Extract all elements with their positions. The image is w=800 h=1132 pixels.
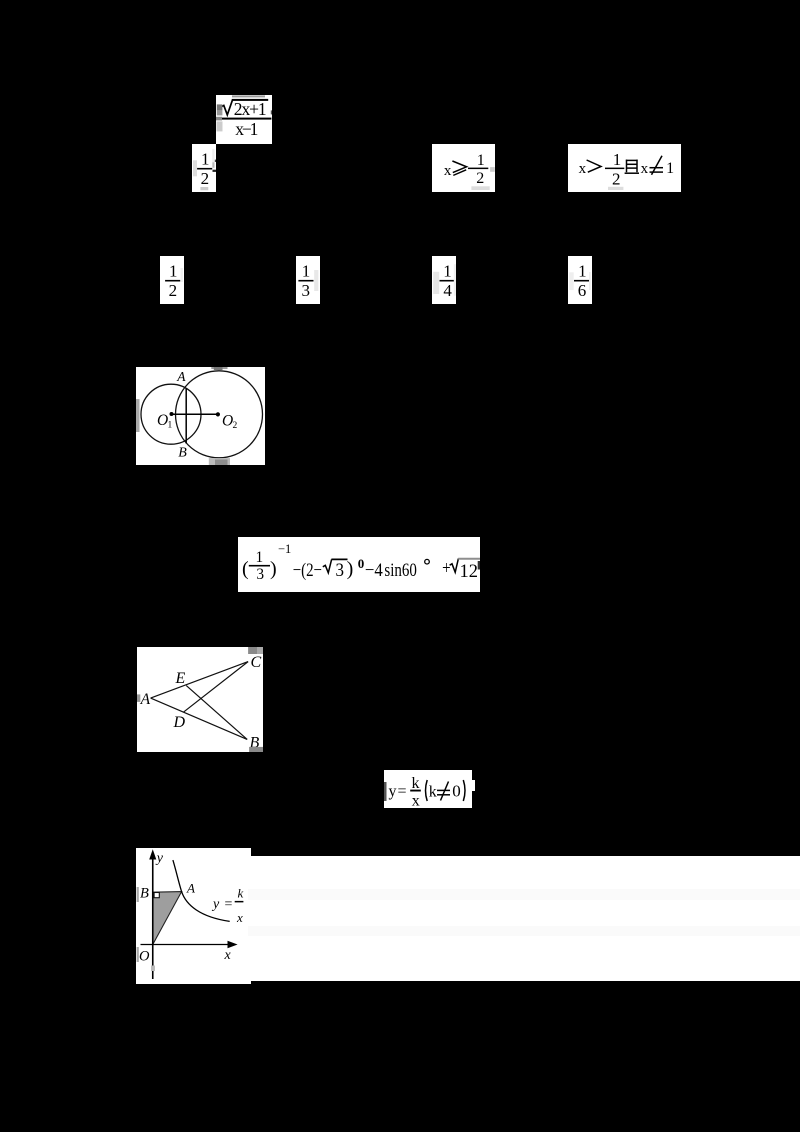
grey cut marks [211, 367, 227, 369]
svg-text:0: 0 [358, 556, 365, 571]
answer option fraction 1/6 [568, 256, 592, 304]
svg-text:k: k [238, 886, 244, 901]
svg-text:1: 1 [168, 420, 173, 430]
svg-text:O: O [139, 949, 150, 965]
formula image: y = k/x (k != 0) [384, 770, 472, 808]
dot O1 [170, 412, 174, 416]
svg-text:D: D [173, 714, 186, 731]
sqrt3 radical [323, 559, 332, 572]
svg-text:): ) [270, 558, 277, 580]
sqrt12 radical [450, 558, 459, 572]
svg-text:1: 1 [201, 150, 210, 169]
neq drawn [437, 781, 450, 800]
svg-text:k: k [412, 775, 420, 792]
svg-text:y: y [211, 897, 220, 912]
y axis [152, 856, 154, 979]
svg-text:sin60: sin60 [384, 560, 417, 581]
line AC [151, 662, 249, 699]
formula image: x >= 1/2 [432, 144, 495, 192]
svg-text:1: 1 [666, 160, 674, 177]
svg-text:1: 1 [578, 262, 587, 281]
svg-text:): ) [347, 558, 354, 580]
CJK qie drawn [625, 160, 639, 174]
svg-text:2x+1: 2x+1 [234, 99, 267, 119]
svg-text:(: ( [242, 558, 249, 580]
big parens drawn [426, 780, 428, 801]
svg-text:k: k [429, 783, 437, 800]
answer option fraction 1/4 [432, 256, 456, 304]
svg-text:2: 2 [201, 169, 210, 188]
svg-text:x: x [444, 163, 452, 179]
svg-text:12: 12 [460, 561, 479, 582]
svg-text:C: C [251, 654, 262, 671]
svg-text:A: A [140, 691, 151, 708]
svg-text:2: 2 [233, 421, 238, 431]
svg-text:1: 1 [256, 549, 264, 566]
shaded triangle OBA [153, 892, 182, 945]
svg-text:x: x [236, 910, 243, 925]
formula image: (1/3)^-1 - (2-sqrt3)^0 - 4sin60deg + sqrt12 [238, 537, 480, 592]
svg-text:3: 3 [256, 565, 264, 582]
svg-text:1: 1 [443, 262, 452, 281]
svg-text:−(2−: −(2− [293, 560, 322, 581]
line AB [151, 698, 248, 739]
svg-text:3: 3 [336, 560, 345, 581]
svg-text:4: 4 [443, 281, 452, 300]
circle O1 [141, 384, 201, 444]
svg-text:1: 1 [477, 152, 485, 169]
svg-text:3: 3 [301, 281, 310, 300]
small white tab right of F6 [472, 780, 475, 791]
svg-text:E: E [175, 670, 186, 687]
hyperbola curve [173, 860, 230, 921]
svg-text:+: + [442, 558, 451, 579]
svg-text:0: 0 [452, 781, 461, 800]
line BE [186, 686, 247, 740]
white band to page right edge [248, 856, 800, 982]
svg-text:x−1: x−1 [235, 119, 258, 139]
svg-text:y: y [389, 783, 397, 800]
svg-text:2: 2 [169, 281, 178, 300]
svg-text:y: y [155, 851, 164, 866]
formula image: sqrt(2x+1)/(x-1) [216, 95, 272, 144]
svg-text:1: 1 [613, 150, 622, 169]
answer option fraction 1/3 [296, 256, 320, 304]
line CD [183, 662, 248, 713]
svg-text:2: 2 [612, 169, 621, 188]
two-circles figure [136, 367, 265, 465]
graph figure box [136, 848, 251, 984]
svg-text:2: 2 [476, 170, 484, 187]
right angle mark at B [154, 893, 159, 898]
svg-text:B: B [140, 886, 149, 902]
circle O2 [176, 371, 263, 458]
svg-text:x: x [412, 792, 420, 808]
svg-text:x: x [224, 948, 232, 963]
chord AB [185, 389, 187, 444]
svg-text:x: x [579, 161, 587, 177]
grey cut marks [137, 887, 139, 902]
svg-text:=: = [225, 897, 233, 912]
x axis [141, 944, 232, 946]
grey cut marks [248, 647, 263, 654]
svg-text:A: A [176, 369, 186, 384]
line O1O2 [172, 413, 219, 415]
formula image: x > 1/2 and x != 1 [568, 144, 681, 192]
svg-text:A: A [186, 880, 195, 895]
triangle figure A C B with E D [137, 647, 263, 752]
formula image: 1/2 cut fragment [192, 144, 216, 192]
svg-text:−4: −4 [365, 560, 383, 581]
dot O2 [216, 412, 220, 416]
svg-text:1: 1 [302, 262, 311, 281]
svg-text:x: x [641, 161, 649, 177]
svg-text:B: B [178, 446, 187, 461]
svg-text:−1: −1 [278, 542, 291, 556]
svg-text:6: 6 [578, 281, 587, 300]
svg-text:1: 1 [169, 262, 178, 281]
svg-text:=: = [398, 783, 407, 800]
answer option fraction 1/2 [160, 256, 184, 304]
neq drawn [650, 156, 664, 175]
